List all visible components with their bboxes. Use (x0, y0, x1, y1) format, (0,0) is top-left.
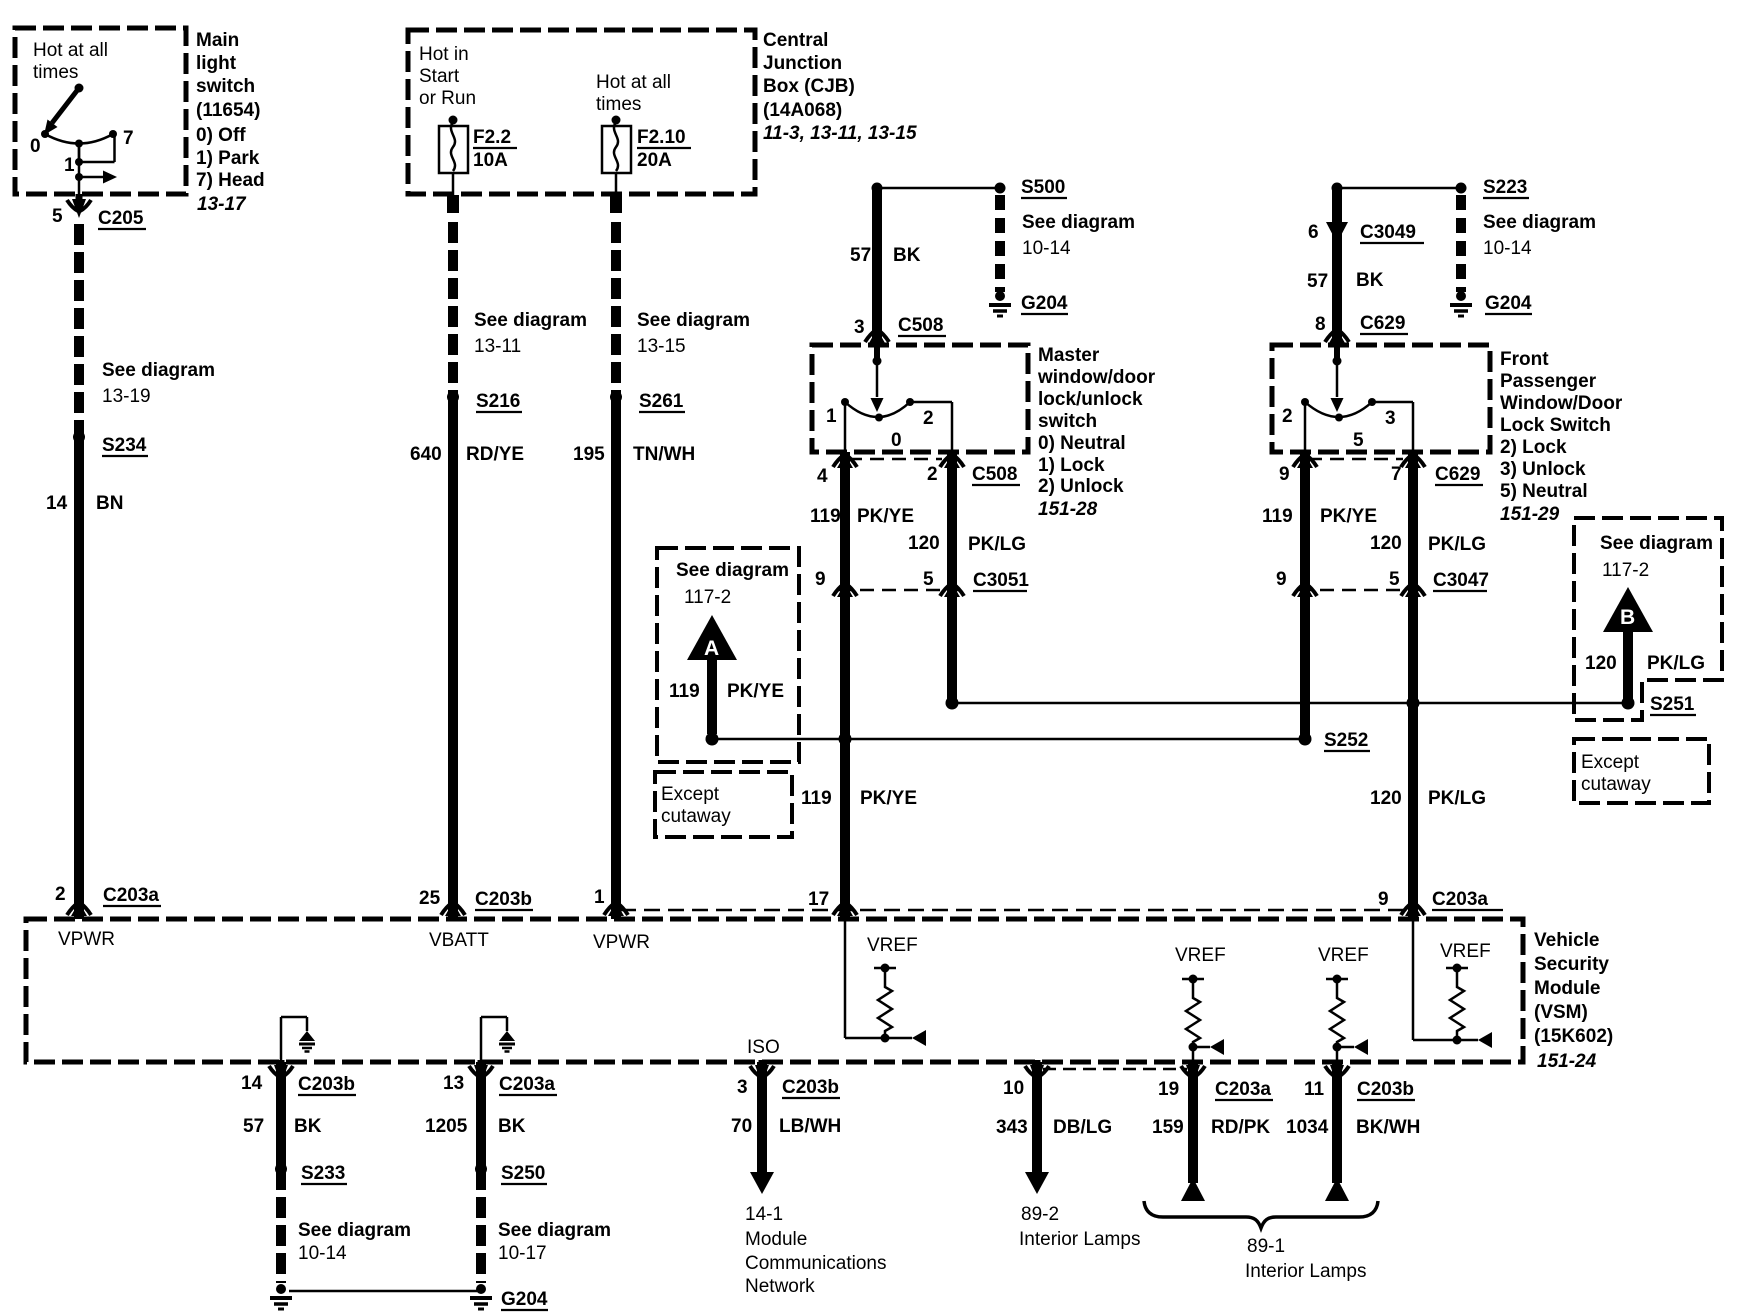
label Vehicle Security Module (VSM) (15K602) (1534, 930, 1613, 1047)
label passenger switch positions (1500, 437, 1588, 502)
svg-text:PK/LG: PK/LG (968, 534, 1026, 555)
svg-text:7: 7 (123, 128, 134, 149)
ground wire S500 to G204 dashed (995, 195, 1005, 292)
label pin 19 (1158, 1079, 1179, 1100)
svg-text:57: 57 (850, 245, 871, 266)
label Main light switch name (196, 30, 260, 121)
passenger switch input stub (1333, 344, 1342, 397)
node dot top of W5 (1332, 183, 1343, 194)
svg-text:640: 640 (410, 444, 442, 465)
svg-text:Central: Central (763, 30, 828, 51)
wire master contact1 to box edge (844, 402, 847, 452)
label Hot in Start or Run (419, 44, 476, 109)
svg-text:57: 57 (243, 1116, 264, 1137)
svg-text:13-11: 13-11 (474, 336, 521, 357)
svg-text:PK/LG: PK/LG (1428, 788, 1486, 809)
label circuit 343 DB/LG (996, 1117, 1112, 1138)
svg-text:120: 120 (1370, 788, 1402, 809)
note box Except cutaway (right) (1574, 739, 1709, 803)
label pin 25 (419, 888, 441, 909)
svg-text:G204: G204 (501, 1289, 548, 1310)
splice S233 dot (275, 1163, 287, 1175)
splice S500 dot (995, 183, 1006, 194)
svg-text:(14A068): (14A068) (763, 100, 842, 121)
label circuit 640 RD/YE (410, 444, 524, 465)
svg-text:Hot at all: Hot at all (596, 72, 671, 93)
svg-text:195: 195 (573, 444, 605, 465)
connector arrow out of VSM pin13 (469, 1060, 493, 1084)
splice S252 dot (1299, 733, 1312, 746)
label pin 1 (594, 887, 605, 908)
svg-text:BK: BK (498, 1116, 526, 1137)
switch S3 front passenger window/door lock switch dashed box (1272, 345, 1490, 452)
svg-text:4: 4 (817, 466, 828, 487)
label ground G204 (S500) (1021, 293, 1068, 314)
arrow from interior lamps (pin11) (1325, 1178, 1349, 1201)
label splice S500 (1021, 177, 1067, 198)
master switch wiper arrow (871, 398, 884, 412)
svg-text:A: A (704, 637, 719, 660)
internal ground wire (pin14) (281, 1017, 307, 1062)
wire VSM pin11 internal (1336, 1047, 1339, 1063)
label Front Passenger Window/Door Lock Switch (1500, 349, 1623, 436)
svg-text:switch: switch (196, 76, 255, 97)
connector arrow into VSM pin25 (441, 902, 465, 916)
label connector C203a (pin9) (1432, 889, 1503, 910)
svg-text:See diagram: See diagram (1600, 533, 1713, 554)
svg-text:RD/PK: RD/PK (1211, 1117, 1270, 1138)
wire between G204 grounds (289, 1290, 477, 1293)
svg-text:20A: 20A (637, 150, 672, 171)
svg-text:window/door: window/door (1037, 367, 1156, 388)
svg-text:343: 343 (996, 1117, 1028, 1138)
wire master pin4 119 PK/YE (840, 452, 850, 919)
svg-text:Master: Master (1038, 345, 1100, 366)
svg-text:151-29: 151-29 (1500, 504, 1560, 525)
connector C508 line (bottom) (848, 458, 942, 461)
label page ref 13-17 (197, 194, 247, 215)
label circuit 14 BN (46, 493, 123, 514)
svg-text:LB/WH: LB/WH (779, 1116, 841, 1137)
master switch contact 2 dot (906, 398, 914, 406)
svg-text:RD/YE: RD/YE (466, 444, 524, 465)
label circuit 57 BK (pin14) (243, 1116, 322, 1137)
svg-text:10-14: 10-14 (298, 1243, 347, 1264)
svg-text:Hot in: Hot in (419, 44, 469, 65)
svg-text:5: 5 (923, 569, 934, 590)
svg-text:See diagram: See diagram (1022, 212, 1135, 233)
label connector C629 (bottom) (1435, 464, 1483, 485)
svg-text:Module: Module (745, 1229, 807, 1250)
svg-text:PK/YE: PK/YE (860, 788, 917, 809)
svg-text:2) Lock: 2) Lock (1500, 437, 1567, 458)
connector arrow C3051 right (940, 583, 964, 597)
svg-text:14-1: 14-1 (745, 1204, 783, 1225)
svg-text:switch: switch (1038, 411, 1097, 432)
label pin 5 (C3047) (1389, 569, 1400, 590)
svg-text:VREF: VREF (1440, 941, 1491, 962)
splice S216 dot (447, 391, 459, 403)
svg-text:70: 70 (731, 1116, 752, 1137)
svg-text:25: 25 (419, 888, 441, 909)
wire W3 dashed segment (fuse F2.10 to S261) (611, 222, 621, 397)
passenger switch contact 3 dot (1368, 398, 1376, 406)
wire switch output to box edge (78, 144, 81, 197)
label connector C629 (top) (1360, 313, 1408, 334)
label splice S251 (1650, 694, 1696, 715)
svg-text:120: 120 (908, 533, 940, 554)
label page ref 151-28 (1038, 499, 1098, 520)
svg-text:C3049: C3049 (1360, 222, 1416, 243)
svg-text:9: 9 (1276, 569, 1287, 590)
svg-text:VPWR: VPWR (58, 929, 115, 950)
wire W1 dashed segment (C205 to S234) (74, 224, 84, 437)
label pin 5 (52, 206, 63, 227)
svg-text:C508: C508 (898, 315, 943, 336)
internal chassis ground symbol (pin13) (499, 1031, 515, 1052)
internal arrow R3 (1337, 1039, 1368, 1055)
svg-text:13-19: 13-19 (102, 386, 151, 407)
svg-text:14: 14 (241, 1073, 263, 1094)
svg-text:S251: S251 (1650, 694, 1695, 715)
svg-text:See diagram: See diagram (637, 310, 750, 331)
svg-text:S223: S223 (1483, 177, 1527, 198)
label pin 4 (817, 466, 828, 487)
svg-text:Network: Network (745, 1276, 815, 1297)
wire W5 57 BK (to passenger switch) (1332, 188, 1342, 342)
svg-text:1) Park: 1) Park (196, 148, 260, 169)
connector arrow into VSM pin1 (604, 902, 628, 916)
wire W4 57 BK (to master switch) (872, 188, 882, 342)
label connector C205 (98, 208, 146, 229)
wire VSM pin19 internal (1192, 1047, 1195, 1063)
svg-text:0: 0 (891, 430, 902, 451)
svg-text:Interior Lamps: Interior Lamps (1245, 1261, 1366, 1282)
label net VPWR (pin2) (58, 929, 115, 950)
svg-text:C203a: C203a (103, 885, 159, 906)
ground G204 symbol (left) (270, 1284, 292, 1309)
svg-text:Except: Except (1581, 752, 1640, 773)
label connector C3049 (1360, 222, 1424, 243)
svg-text:BN: BN (96, 493, 123, 514)
svg-text:See diagram: See diagram (474, 310, 587, 331)
label splice S233 (301, 1163, 347, 1184)
svg-text:PK/YE: PK/YE (1320, 506, 1377, 527)
svg-text:PK/LG: PK/LG (1647, 653, 1705, 674)
svg-text:0) Neutral: 0) Neutral (1038, 433, 1126, 454)
svg-text:times: times (596, 94, 641, 115)
wire passenger pin9 119 PK/YE (1300, 452, 1310, 739)
svg-text:C205: C205 (98, 208, 144, 229)
label Hot at all times (main light switch) (33, 40, 108, 83)
label 14-1 Module Communications Network (745, 1204, 887, 1297)
svg-text:3: 3 (854, 317, 865, 338)
wire pin11 1034 BK/WH (1332, 1062, 1342, 1183)
svg-text:7) Head: 7) Head (196, 170, 265, 191)
module U1 Vehicle Security Module dashed box (26, 919, 1523, 1062)
label splice S216 (476, 391, 522, 412)
svg-text:TN/WH: TN/WH (633, 444, 695, 465)
connector C203 line pin10 to pin19 (1043, 1068, 1187, 1071)
label connector C508 (top) (898, 315, 946, 336)
connector C3051 line (838, 589, 958, 592)
splice S250 dot (475, 1163, 487, 1175)
node 1 dot (75, 158, 83, 166)
svg-text:89-1: 89-1 (1247, 1236, 1285, 1257)
connector C3049 inline arrow (1326, 222, 1348, 243)
svg-text:PK/YE: PK/YE (857, 506, 914, 527)
label passenger position 5 (1353, 430, 1364, 451)
label See diagram 13-19 (102, 360, 215, 407)
connector arrow pin 2 (940, 454, 964, 468)
svg-text:Except: Except (661, 784, 720, 805)
connector C629 arrow into passenger switch (1325, 329, 1349, 343)
label pin 9 (C3047) (1276, 569, 1287, 590)
off-page box B dashed (notched) (1574, 518, 1722, 720)
svg-text:or Run: or Run (419, 88, 476, 109)
wire W3 solid segment 195 TN/WH (611, 397, 621, 919)
wire S233 to G204 dashed (276, 1169, 286, 1283)
svg-text:1) Lock: 1) Lock (1038, 455, 1105, 476)
internal arrow R2 (1193, 1039, 1224, 1055)
svg-text:See diagram: See diagram (498, 1220, 611, 1241)
splice S234 dot (73, 431, 85, 443)
svg-text:G204: G204 (1485, 293, 1532, 314)
wire 120 PK/LG to VSM pin9 labels (1370, 788, 1486, 809)
label connector C3047 (1433, 570, 1489, 591)
master switch arc (845, 402, 910, 417)
passenger switch wiper arrow (1331, 398, 1344, 412)
svg-text:C203a: C203a (499, 1074, 555, 1095)
svg-text:Security: Security (1534, 954, 1609, 975)
label master switch positions (1038, 433, 1126, 497)
svg-text:3) Unlock: 3) Unlock (1500, 459, 1586, 480)
label pin 6 (1308, 222, 1319, 243)
connector arrow out of VSM pin14 (269, 1060, 293, 1084)
connector arrow out of VSM pin11 (1325, 1060, 1349, 1084)
ground wire S223 to G204 dashed (1456, 195, 1466, 292)
label master contact 1 (826, 406, 837, 427)
label net VREF (pin19) (1175, 945, 1226, 966)
label pin 17 (808, 889, 829, 910)
svg-text:Main: Main (196, 30, 239, 51)
connector arrow out of VSM pin10 (1025, 1060, 1049, 1084)
label circuit 1034 BK/WH (1286, 1117, 1420, 1138)
label ground G204 (bottom) (501, 1289, 548, 1310)
label splice S223 (1483, 177, 1529, 198)
svg-text:VPWR: VPWR (593, 932, 650, 953)
label See diagram 13-11 (474, 310, 587, 357)
label fuse F2.10 20A (637, 127, 691, 171)
wire S250 to G204 dashed (476, 1169, 486, 1283)
svg-text:cutaway: cutaway (1581, 774, 1651, 795)
label Central Junction Box name (763, 30, 855, 121)
svg-text:S261: S261 (639, 391, 684, 412)
svg-text:2: 2 (1282, 406, 1293, 427)
svg-text:S233: S233 (301, 1163, 345, 1184)
label pin 10 (1003, 1078, 1024, 1099)
svg-text:See diagram: See diagram (676, 560, 789, 581)
resistor R2 VREF pullup (pin19) (1182, 975, 1204, 1052)
svg-text:PK/LG: PK/LG (1428, 534, 1486, 555)
svg-text:DB/LG: DB/LG (1053, 1117, 1112, 1138)
svg-text:119: 119 (1262, 506, 1293, 527)
switch S2 master window/door lock/unlock switch dashed box (812, 345, 1028, 452)
connector arrow C3047 right (1401, 583, 1425, 597)
svg-text:10-17: 10-17 (498, 1243, 547, 1264)
svg-text:89-2: 89-2 (1021, 1204, 1059, 1225)
svg-text:G204: G204 (1021, 293, 1068, 314)
label connector C203a (pin19) (1215, 1079, 1273, 1100)
label Except cutaway (right) (1581, 752, 1651, 795)
main light switch center contact dot (75, 140, 83, 148)
label pin 2 (55, 884, 66, 905)
svg-text:2: 2 (923, 408, 934, 429)
label pin 9 (C203a) (1378, 889, 1389, 910)
label circuit 195 TN/WH (573, 444, 695, 465)
svg-text:VREF: VREF (1318, 945, 1369, 966)
svg-text:See diagram: See diagram (298, 1220, 411, 1241)
brace 89-1 interior lamps (1144, 1201, 1378, 1228)
connector arrow into VSM pin2 (67, 902, 91, 916)
svg-text:120: 120 (1585, 653, 1617, 674)
svg-text:C3051: C3051 (973, 570, 1029, 591)
off-page arrow B (1603, 587, 1653, 699)
wire W2 dashed segment (fuse F2.2 to S216) (448, 222, 458, 397)
svg-text:C3047: C3047 (1433, 570, 1489, 591)
master switch contact 1 dot (841, 398, 849, 406)
label position 7 (123, 128, 134, 149)
resistor R4 VREF pullup (pin9) (1446, 964, 1468, 1045)
svg-text:BK/WH: BK/WH (1356, 1117, 1420, 1138)
splice S251 dot (1622, 697, 1635, 710)
wire net S251 horizontal (952, 702, 1628, 705)
wire pin13 1205 BK (476, 1062, 486, 1169)
svg-text:117-2: 117-2 (1602, 560, 1649, 581)
svg-text:9: 9 (1279, 464, 1290, 485)
off-page box A dashed (657, 548, 799, 762)
svg-text:10-14: 10-14 (1483, 238, 1532, 259)
svg-text:151-28: 151-28 (1038, 499, 1098, 520)
passenger switch contact 2 dot (1301, 398, 1309, 406)
svg-text:cutaway: cutaway (661, 806, 731, 827)
label See diagram 117-2 (A) (676, 560, 789, 608)
node dot master PK/LG end (946, 697, 959, 710)
wire passenger pin7 120 PK/LG (1408, 452, 1418, 919)
label circuit 119 PK/YE (passenger) (1262, 506, 1377, 527)
svg-text:Interior Lamps: Interior Lamps (1019, 1229, 1140, 1250)
label letter B (1620, 606, 1635, 629)
note box Except cutaway (left) (655, 772, 792, 837)
label connector C203b (pin3) (782, 1077, 840, 1098)
feed arrow right (79, 171, 117, 184)
splice S223 dot (1456, 183, 1467, 194)
label See diagram 117-2 (B) (1600, 533, 1713, 581)
resistor R1 VREF pullup (pin17) (874, 964, 896, 1043)
label position 0 (30, 136, 41, 157)
svg-text:9: 9 (815, 569, 826, 590)
svg-text:19: 19 (1158, 1079, 1179, 1100)
svg-text:BK: BK (294, 1116, 322, 1137)
svg-text:5: 5 (1353, 430, 1364, 451)
junction dot S251 net at passenger PK/LG (1407, 697, 1420, 710)
svg-text:BK: BK (893, 245, 921, 266)
svg-text:17: 17 (808, 889, 829, 910)
connector arrow into VSM pin17 (833, 902, 857, 916)
svg-text:Front: Front (1500, 349, 1549, 370)
label pin 7 (C629) (1391, 464, 1402, 485)
label connector C203a (pin13) (499, 1074, 557, 1095)
arrow to module communications network (750, 1172, 774, 1194)
internal ground wire (pin13) (481, 1017, 507, 1062)
svg-text:1: 1 (826, 406, 837, 427)
svg-text:119: 119 (810, 506, 841, 527)
svg-text:11-3, 13-11, 13-15: 11-3, 13-11, 13-15 (763, 123, 917, 144)
svg-text:2: 2 (927, 464, 938, 485)
label switch positions (196, 125, 265, 191)
svg-text:VREF: VREF (1175, 945, 1226, 966)
label connector C3051 (973, 570, 1029, 591)
svg-text:C203a: C203a (1432, 889, 1488, 910)
main light switch arc (45, 134, 113, 144)
wire VSM pin17 internal (845, 919, 885, 1038)
passenger switch pivot dot (1335, 414, 1343, 422)
label Except cutaway (left) (661, 784, 731, 827)
label net VREF (pin9) (1440, 941, 1491, 962)
label letter A (704, 637, 719, 660)
label splice S261 (639, 391, 685, 412)
label splice S234 (102, 435, 148, 456)
svg-text:Communications: Communications (745, 1253, 887, 1274)
label connector C203b (pin25) (475, 889, 533, 910)
label pin 3 (ISO) (737, 1077, 748, 1098)
internal arrow R4 (1457, 1032, 1492, 1048)
fuse F2.2 10A symbol (439, 116, 468, 197)
svg-text:1: 1 (64, 155, 75, 176)
wire W1 solid segment 14 BN (74, 437, 84, 919)
label circuit 120 PK/LG (master) (908, 533, 1026, 555)
wire pin10 343 DB/LG (1032, 1062, 1042, 1172)
label pin 9 (C629) (1279, 464, 1290, 485)
connector arrow out of VSM pin19 (1181, 1060, 1205, 1084)
svg-text:159: 159 (1152, 1117, 1184, 1138)
svg-text:6: 6 (1308, 222, 1319, 243)
label circuit 120 PK/LG (passenger) (1370, 533, 1486, 555)
svg-text:Start: Start (419, 66, 460, 87)
master switch pivot dot (875, 414, 883, 422)
wire passenger contact2 to box edge (1304, 402, 1307, 452)
wire net S252 horizontal (712, 738, 1305, 741)
svg-text:C203b: C203b (475, 889, 532, 910)
svg-text:10-14: 10-14 (1022, 238, 1071, 259)
label net VPWR (pin1) (593, 932, 650, 953)
svg-text:10: 10 (1003, 1078, 1024, 1099)
label passenger contact 3 (1385, 408, 1396, 429)
label See diagram 10-17 (S250) (498, 1220, 611, 1264)
label circuit 119 PK/YE (A branch) (669, 681, 784, 702)
label splice S252 (1324, 730, 1370, 751)
svg-text:S252: S252 (1324, 730, 1368, 751)
svg-text:light: light (196, 53, 237, 74)
wire pin19 159 RD/PK (1188, 1062, 1198, 1183)
label pin 8 (1315, 314, 1326, 335)
main light switch wiper arm with arrowhead (44, 88, 79, 135)
resistor R3 VREF pullup (pin11) (1326, 975, 1348, 1052)
svg-text:7: 7 (1391, 464, 1402, 485)
wire W4 to S500 (877, 187, 1000, 190)
svg-text:0: 0 (30, 136, 41, 157)
connector C203 line across VSM top (620, 909, 1405, 912)
